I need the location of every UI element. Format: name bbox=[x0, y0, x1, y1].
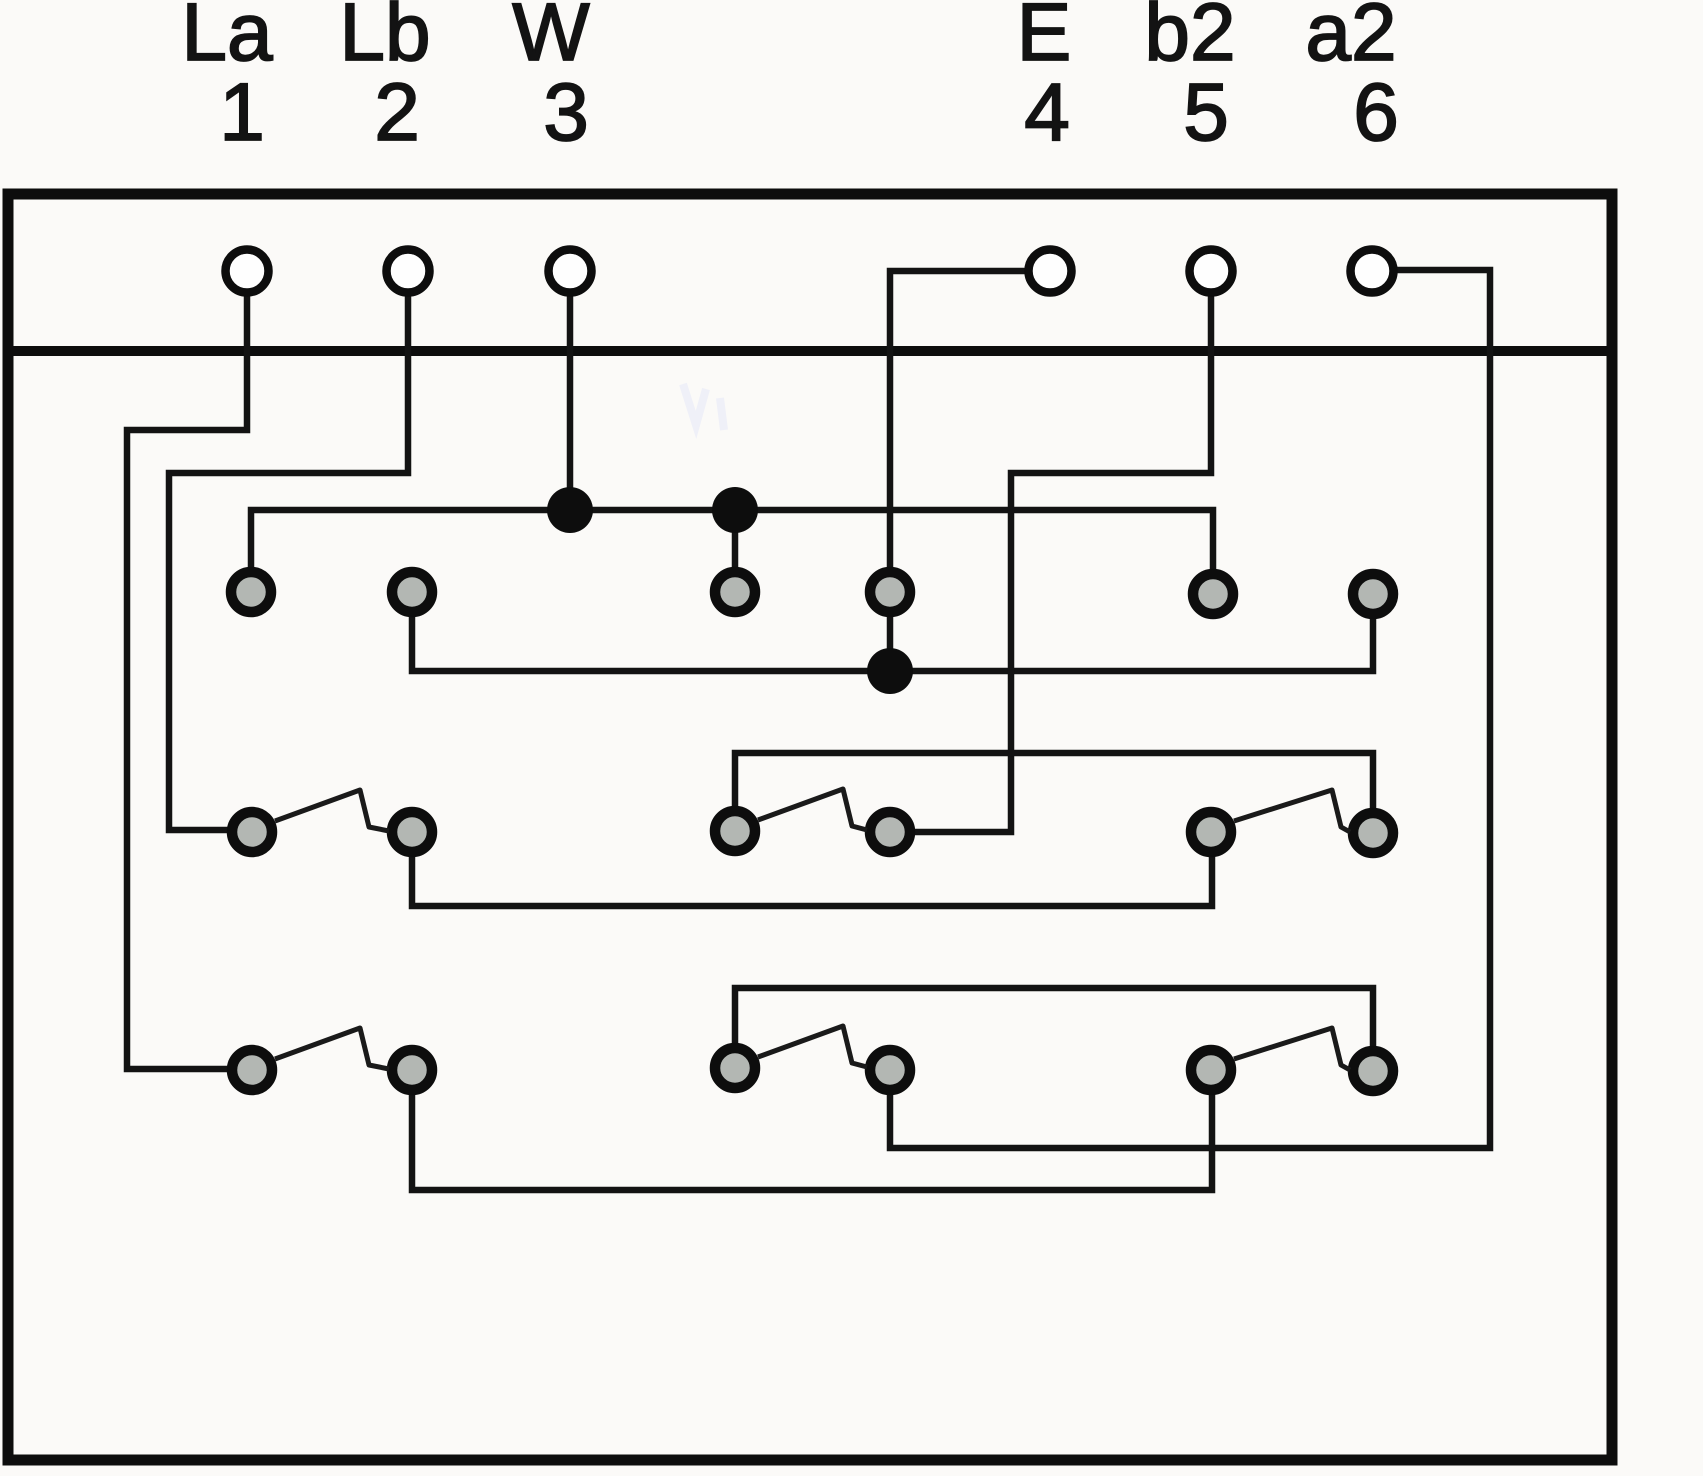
wire terminal3 to junction J1 bbox=[567, 292, 574, 510]
wire bus row C upper (C2L to C3R) bbox=[735, 988, 1373, 1072]
contact C2L bbox=[715, 1048, 755, 1088]
switch arm B2 bbox=[758, 789, 867, 830]
terminal 2 Lb bbox=[387, 250, 430, 293]
terminal 3 W bbox=[549, 250, 592, 293]
switch arm C2 bbox=[758, 1026, 867, 1067]
contact C3R bbox=[1353, 1051, 1393, 1091]
wire bus row C lower (C1R to C3L) bbox=[412, 1071, 1212, 1190]
wire bus row B lower (B1R to B3L) bbox=[412, 833, 1212, 906]
contact C2R bbox=[870, 1050, 910, 1090]
contact B2R bbox=[870, 812, 910, 852]
switch arm B1 bbox=[275, 790, 389, 831]
svg-text:5: 5 bbox=[1183, 67, 1229, 158]
junction J2 (W bus / contact A3) bbox=[712, 487, 758, 533]
junction J3 (E drop / E bus) bbox=[867, 648, 913, 694]
wire bus W row (A1 to A5) bbox=[251, 510, 1213, 594]
switch arm B3 bbox=[1234, 790, 1350, 832]
wire terminal1 to contact C1L bbox=[127, 292, 252, 1069]
contact A5 bbox=[1193, 574, 1233, 614]
wire terminal2 to contact B1L bbox=[169, 292, 408, 830]
contact A3 bbox=[715, 572, 755, 612]
contact B1L bbox=[232, 812, 272, 852]
switch arm C1 bbox=[275, 1028, 389, 1069]
wire terminal4 E drop bbox=[890, 271, 1027, 671]
contact B3L bbox=[1191, 812, 1231, 852]
svg-text:1: 1 bbox=[219, 67, 265, 158]
wire bus row B upper (B2L to B3R) bbox=[735, 753, 1373, 834]
contact C3L bbox=[1191, 1050, 1231, 1090]
scan smudge artifact bbox=[683, 384, 724, 430]
svg-text:6: 6 bbox=[1353, 67, 1399, 158]
wire bus E row (A2 to A6) bbox=[412, 594, 1373, 671]
switch arm C3 bbox=[1234, 1028, 1350, 1070]
contact A4 bbox=[870, 572, 910, 612]
terminal strip rail bbox=[3, 346, 1617, 356]
contact B3R bbox=[1353, 813, 1393, 853]
contact A1 bbox=[231, 572, 271, 612]
terminal 1 La bbox=[226, 250, 269, 293]
contact B1R bbox=[392, 812, 432, 852]
wire terminal6 a2 to contact C2R bbox=[890, 270, 1490, 1148]
svg-text:4: 4 bbox=[1024, 67, 1070, 158]
junction J1 (W bus / terminal3) bbox=[547, 487, 593, 533]
wire junction J2 to contact A3 bbox=[732, 510, 739, 592]
svg-text:2: 2 bbox=[374, 67, 420, 158]
svg-text:3: 3 bbox=[543, 67, 589, 158]
wire terminal5 to contact B2R bbox=[892, 292, 1211, 832]
contact A2 bbox=[392, 572, 432, 612]
terminal 5 b2 bbox=[1190, 250, 1233, 293]
contact B2L bbox=[715, 811, 755, 851]
contact A6 bbox=[1353, 574, 1393, 614]
contact C1L bbox=[232, 1050, 272, 1090]
contact C1R bbox=[392, 1050, 432, 1090]
terminal 6 a2 bbox=[1351, 250, 1394, 293]
terminal 4 E bbox=[1029, 250, 1072, 293]
